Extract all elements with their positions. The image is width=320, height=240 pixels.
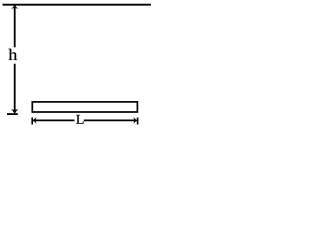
wire: L dimension line right segment — [84, 119, 137, 121]
rectangle (beam) — [32, 102, 137, 112]
tick: L dimension right extension — [137, 118, 139, 125]
arrowhead left (L dimension) — [33, 117, 37, 124]
tick: L dimension left extension — [31, 118, 33, 125]
arrowhead up (h dimension, top) — [11, 5, 18, 9]
label L — [76, 115, 83, 124]
arrowhead right (L dimension) — [133, 117, 137, 124]
tick at bottom of h dimension — [7, 113, 18, 115]
label h — [9, 49, 18, 60]
arrowhead down (h dimension, bottom) — [11, 109, 18, 114]
top reference line — [3, 4, 152, 6]
wire: L dimension line left segment — [33, 119, 75, 121]
wire: h dimension vertical line upper segment — [14, 6, 16, 48]
wire: h dimension vertical line lower segment — [14, 64, 16, 113]
